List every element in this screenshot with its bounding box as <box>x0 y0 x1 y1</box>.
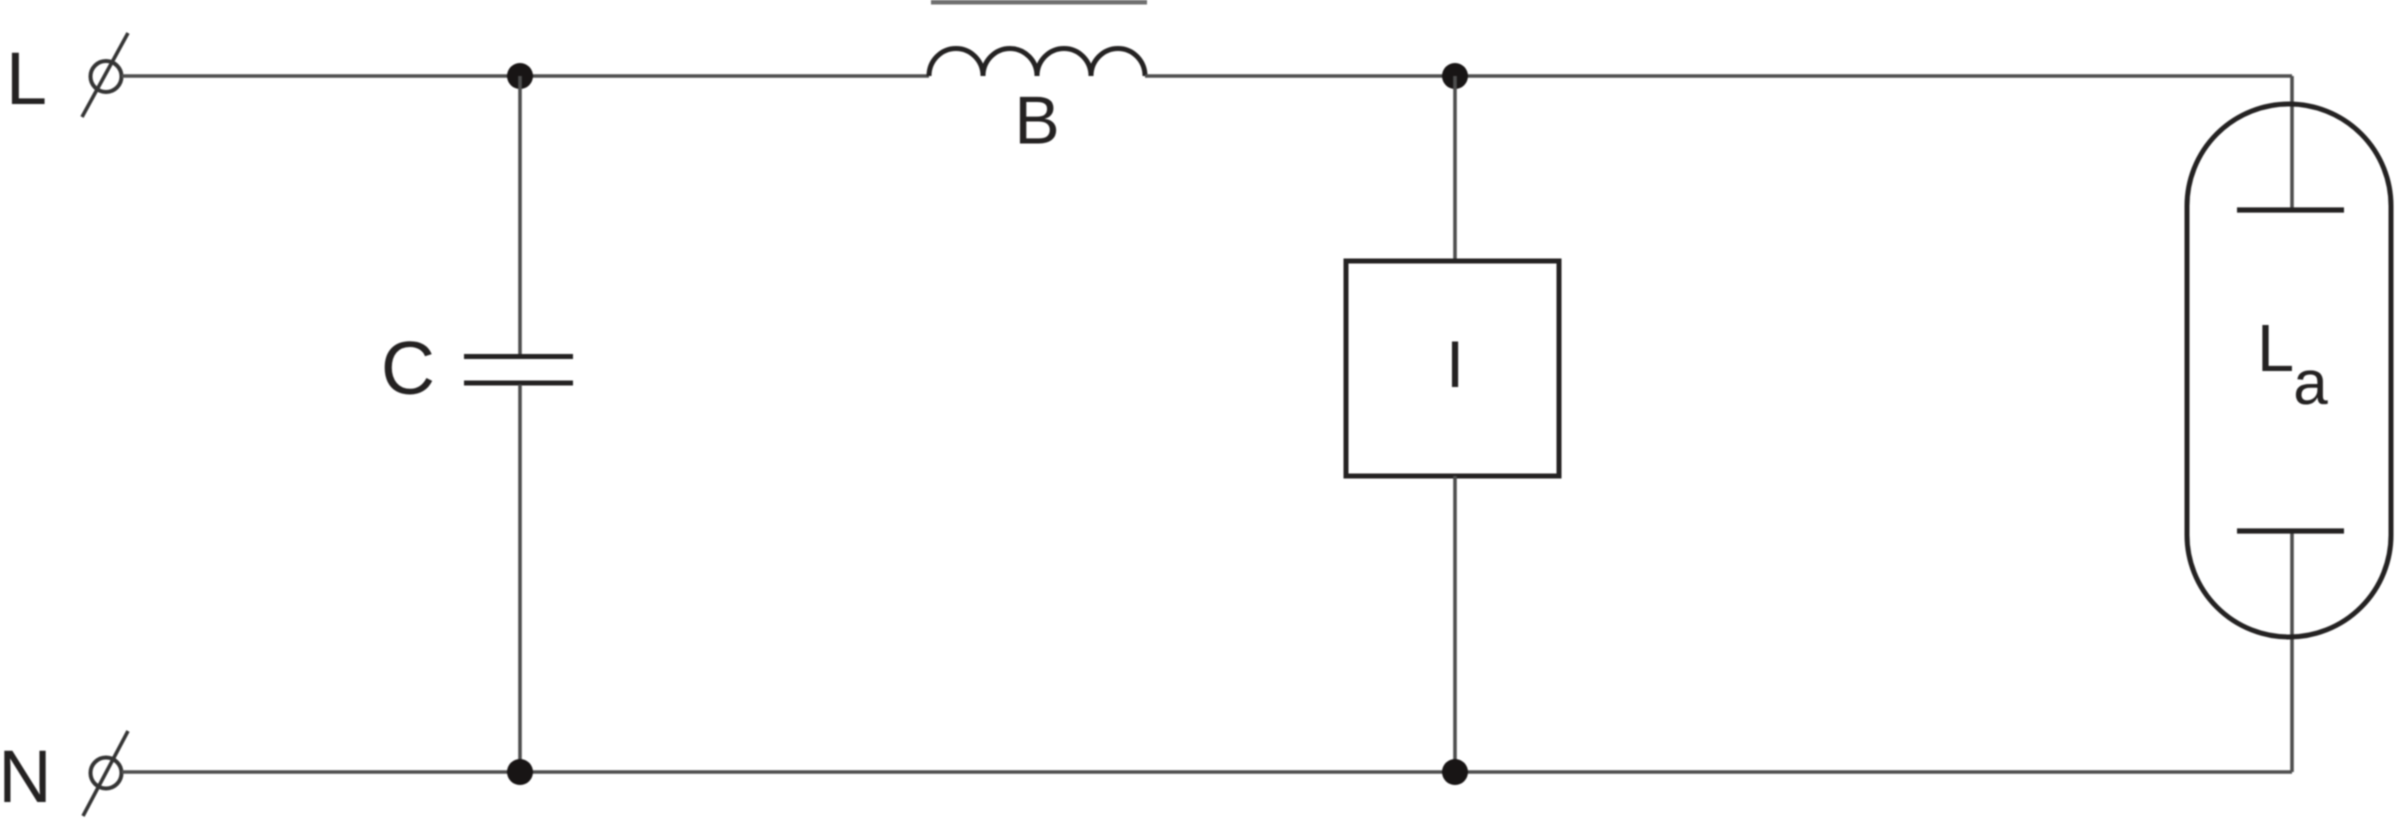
wire: lamp bottom lead (electrode down to bottom rail) <box>2290 531 2294 772</box>
lamp La (stadium envelope) <box>2187 104 2391 637</box>
wire: bottom rail <box>122 770 2293 774</box>
wire: ignitor branch lower segment <box>1453 476 1457 772</box>
wire: capacitor branch lower segment <box>518 385 522 773</box>
wire: capacitor branch upper segment <box>518 76 522 355</box>
junction dot: bottom rail / capacitor branch <box>507 759 533 785</box>
svg-text:B: B <box>1014 83 1059 159</box>
svg-text:C: C <box>381 326 435 410</box>
svg-text:N: N <box>0 735 52 818</box>
capacitor C (two plates) <box>464 357 573 384</box>
inductor B core bar <box>931 0 1147 5</box>
junction dot: top rail / capacitor branch <box>507 63 533 89</box>
ignitor I (box) <box>1346 261 1559 476</box>
junction dot: top rail / ignitor branch <box>1442 63 1468 89</box>
svg-text:I: I <box>1446 327 1464 401</box>
inductor B (coil) <box>929 49 1145 77</box>
lamp La top electrode <box>2237 207 2344 212</box>
svg-text:L: L <box>6 37 47 120</box>
wire: ignitor branch upper segment <box>1453 76 1457 261</box>
wire: top rail left (terminal to inductor) <box>122 74 930 78</box>
svg-text:a: a <box>2293 349 2328 418</box>
terminal L (circle with slash) <box>82 33 128 117</box>
terminal N (circle with slash) <box>83 731 128 816</box>
wire: lamp top lead (corner down to top electrode) <box>2290 76 2294 210</box>
svg-text:L: L <box>2257 311 2294 386</box>
lamp La bottom electrode <box>2237 528 2344 533</box>
junction dot: bottom rail / ignitor branch <box>1442 759 1468 785</box>
wire: top rail right (inductor to lamp corner) <box>1145 74 2292 78</box>
